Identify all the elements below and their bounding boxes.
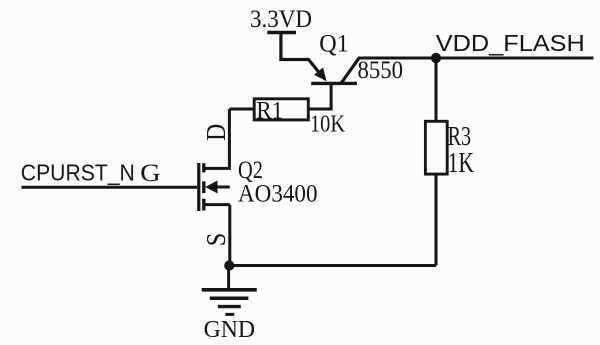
svg-text:D: D xyxy=(201,124,231,141)
svg-text:VDD_FLASH: VDD_FLASH xyxy=(436,30,585,56)
svg-text:G: G xyxy=(140,158,161,187)
svg-text:10K: 10K xyxy=(310,110,345,137)
svg-text:3.3VD: 3.3VD xyxy=(250,4,312,33)
svg-text:S: S xyxy=(201,233,231,247)
svg-text:R1: R1 xyxy=(256,95,283,124)
svg-text:AO3400: AO3400 xyxy=(238,179,318,208)
svg-text:1K: 1K xyxy=(448,148,475,179)
svg-text:CPURST_N: CPURST_N xyxy=(21,159,135,185)
svg-text:GND: GND xyxy=(204,316,256,343)
svg-text:R3: R3 xyxy=(448,121,472,151)
svg-text:8550: 8550 xyxy=(358,55,404,84)
svg-text:Q1: Q1 xyxy=(319,29,349,58)
